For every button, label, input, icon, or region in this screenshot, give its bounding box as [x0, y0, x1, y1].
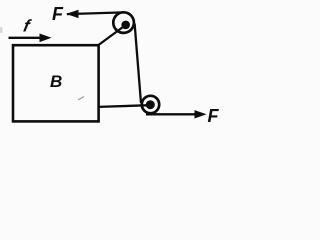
top pulley axle dot	[121, 21, 130, 30]
top pulley wheel	[113, 12, 134, 33]
svg-text:F: F	[208, 106, 220, 126]
top arrow F head (points left)	[66, 10, 79, 18]
faint smudge artifact	[78, 97, 84, 101]
block B	[13, 45, 99, 121]
arrow f line	[9, 37, 44, 39]
svg-text:B: B	[50, 72, 62, 91]
bottom arrow F line	[146, 113, 198, 115]
top rope to pulley (tangent line)	[67, 12, 124, 14]
horizontal rope from block to bottom pulley axle	[99, 105, 151, 107]
bottom pulley axle dot	[146, 100, 155, 109]
svg-text:F: F	[52, 4, 64, 24]
faint edge speck	[0, 27, 3, 33]
bottom pulley wheel	[142, 96, 159, 113]
bottom arrow F head (points right)	[195, 110, 207, 118]
rope between pulleys	[135, 24, 141, 104]
arrow f head	[40, 34, 52, 43]
diagonal rope from block corner to top pulley axle	[99, 26, 126, 46]
